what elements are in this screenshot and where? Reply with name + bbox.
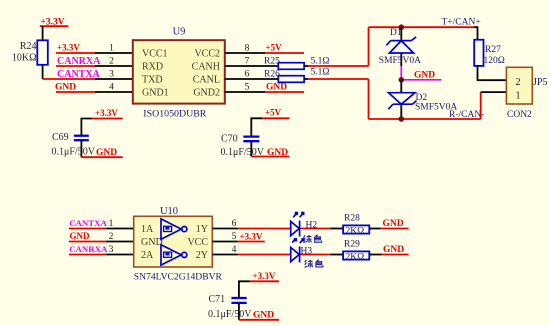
svg-text:JP5: JP5: [533, 77, 547, 88]
wire C70 top: [251, 118, 262, 136]
wire to U10 pin 3: [106, 254, 134, 256]
wire to U9 pin 2: [95, 65, 133, 67]
net label CANRXA (U10 pin 3): [69, 244, 108, 255]
svg-text:+3.3V: +3.3V: [253, 271, 276, 281]
svg-text:8: 8: [245, 44, 250, 54]
wire top rail black corner: [474, 27, 478, 40]
svg-text:2: 2: [109, 232, 114, 242]
capacitor C69: [52, 132, 96, 158]
wire from +3.3V to R24: [42, 26, 44, 40]
power port GND (R28): [381, 219, 409, 229]
wire bottom rail R-/CAN-: [369, 118, 481, 120]
wire H3 to R29: [300, 254, 343, 256]
svg-text:GND: GND: [383, 219, 404, 229]
wire to U9 pin 3: [95, 78, 133, 80]
svg-text:5: 5: [232, 232, 237, 242]
net label CANRXA (U9 pin 2): [56, 56, 101, 67]
resistor R24: [12, 40, 48, 65]
svg-text:R24: R24: [20, 41, 37, 52]
svg-text:TXD: TXD: [142, 75, 163, 86]
svg-text:SMF5V0A: SMF5V0A: [379, 56, 421, 66]
svg-text:ISO1050DUBR: ISO1050DUBR: [143, 109, 207, 120]
svg-text:CANTXA: CANTXA: [69, 218, 107, 228]
net label CANTXA (U9 pin 3): [43, 69, 101, 80]
svg-text:+5V: +5V: [266, 43, 283, 53]
wire to U9 pin 1: [95, 52, 133, 54]
svg-text:R-/CAN-: R-/CAN-: [449, 110, 484, 120]
svg-text:1: 1: [109, 219, 114, 229]
svg-text:C71: C71: [209, 294, 226, 305]
wire CANL drop: [368, 79, 370, 119]
svg-text:2: 2: [516, 77, 521, 88]
svg-text:C70: C70: [221, 134, 238, 145]
wire top rail T+/CAN+: [369, 26, 475, 28]
svg-text:U9: U9: [173, 27, 186, 38]
label green (H2): [303, 235, 321, 243]
wire to JP5 pin 1: [481, 91, 507, 93]
wire R27 bottom to JP5 pin 2: [478, 66, 507, 80]
svg-text:1Y: 1Y: [196, 224, 208, 235]
junction dot (D1 top): [399, 24, 405, 30]
svg-text:5.1Ω: 5.1Ω: [311, 57, 330, 67]
svg-text:GND: GND: [383, 245, 404, 255]
svg-text:6: 6: [245, 70, 250, 80]
svg-text:2KΩ: 2KΩ: [346, 227, 365, 237]
junction dot (D2 bottom): [399, 116, 405, 122]
svg-text:GND: GND: [70, 231, 91, 241]
svg-text:D2: D2: [416, 93, 428, 103]
wire U9 pin 6: [225, 78, 278, 80]
svg-text:VCC1: VCC1: [142, 49, 168, 60]
svg-text:R29: R29: [344, 240, 360, 250]
power port +3.3V (top of R24): [40, 18, 69, 28]
resistor R25: [264, 57, 304, 70]
svg-text:+3.3V: +3.3V: [95, 108, 118, 118]
svg-text:6: 6: [232, 219, 237, 229]
power port +3.3V (C69 top): [91, 108, 123, 119]
power port GND (between D1 D2): [401, 66, 441, 80]
svg-text:+3.3V: +3.3V: [57, 43, 80, 53]
svg-text:10KΩ: 10KΩ: [12, 53, 37, 64]
wire R29 to GND: [369, 254, 381, 256]
svg-text:GND: GND: [253, 311, 274, 321]
power port +5V (C70 top): [262, 108, 290, 119]
svg-text:1: 1: [109, 44, 114, 54]
svg-text:CANL: CANL: [193, 75, 220, 86]
svg-text:3: 3: [109, 70, 114, 80]
svg-text:CANH: CANH: [192, 62, 220, 73]
svg-text:+3.3V: +3.3V: [240, 232, 263, 242]
svg-text:GND2: GND2: [193, 88, 220, 99]
power port GND (C71): [239, 311, 279, 321]
op-amp U9 body: [133, 27, 225, 120]
resistor R29: [343, 240, 369, 263]
wire to U10 pin 2: [106, 241, 134, 243]
svg-text:2: 2: [109, 57, 114, 67]
svg-text:GND: GND: [414, 71, 435, 81]
svg-text:U10: U10: [160, 206, 178, 217]
svg-text:0.1μF/50V: 0.1μF/50V: [52, 147, 96, 158]
svg-text:CANRXA: CANRXA: [69, 244, 108, 254]
net label GND (U9 pin 4): [55, 83, 95, 93]
wire H2 to R28: [300, 228, 343, 230]
svg-text:R28: R28: [344, 214, 360, 224]
svg-text:1: 1: [516, 90, 521, 101]
svg-text:2Y: 2Y: [196, 250, 208, 261]
net label GND (U10 pin 2): [69, 231, 106, 242]
connector JP5: [506, 67, 547, 120]
power port +5V (pin 8): [265, 43, 304, 54]
wire U9 pin 8: [225, 52, 265, 54]
svg-text:R26: R26: [264, 70, 280, 80]
capacitor C70: [221, 134, 265, 159]
svg-text:C69: C69: [52, 132, 69, 143]
svg-text:GND1: GND1: [142, 88, 169, 99]
resistor R27: [474, 40, 505, 66]
inverter gate 2: [161, 245, 187, 265]
svg-text:4: 4: [232, 245, 237, 255]
label green (H3): [305, 260, 323, 268]
wire C69 top: [81, 119, 91, 136]
LED H3: [291, 238, 313, 262]
svg-text:120Ω: 120Ω: [484, 56, 505, 66]
power port GND (C70): [251, 148, 289, 158]
svg-text:T+/CAN+: T+/CAN+: [442, 18, 481, 28]
wire C71 top: [239, 281, 249, 298]
svg-text:R25: R25: [264, 57, 280, 67]
power port GND (C69): [81, 148, 122, 158]
inverter U10 body: [134, 206, 223, 283]
inverter gate 1: [161, 219, 187, 239]
svg-text:7: 7: [245, 57, 250, 67]
power port +3.3V (C71 top): [249, 271, 279, 281]
net label +3.3V (U9 pin 1): [56, 43, 95, 54]
wire C71 bottom: [238, 303, 240, 320]
svg-text:GND: GND: [141, 237, 163, 248]
wire CANH riser: [368, 27, 370, 66]
wire to U10 pin 1: [106, 228, 134, 230]
wire C69 bottom: [80, 140, 82, 157]
diode D1: [379, 27, 421, 66]
svg-text:R27: R27: [485, 45, 501, 55]
power port GND (R29): [382, 245, 409, 255]
wire U10 pin 5: [212, 241, 238, 243]
svg-text:VCC: VCC: [187, 237, 208, 248]
svg-text:1A: 1A: [141, 224, 154, 235]
capacitor C71: [208, 294, 252, 320]
svg-text:RXD: RXD: [142, 62, 163, 73]
net label CANTXA (U10 pin 1): [69, 218, 108, 229]
wire R24 bottom to CANTXA wire: [42, 65, 44, 79]
wire U9 pin 5: [225, 91, 265, 93]
svg-text:SN74LVC2G14DBVR: SN74LVC2G14DBVR: [134, 272, 223, 283]
svg-text:VCC2: VCC2: [194, 49, 220, 60]
svg-text:GND: GND: [55, 83, 76, 93]
svg-text:GND: GND: [96, 148, 117, 158]
svg-text:+5V: +5V: [265, 108, 282, 118]
svg-text:0.1μF/50V: 0.1μF/50V: [208, 309, 252, 320]
wire U10 pin 6: [212, 228, 290, 230]
power port +3.3V (pin 5): [238, 232, 265, 242]
svg-text:GND: GND: [267, 148, 288, 158]
svg-text:D1: D1: [390, 28, 402, 38]
wire U10 pin 4: [212, 254, 290, 256]
wire U9 pin 7: [225, 65, 278, 67]
wire C70 bottom: [250, 141, 252, 156]
resistor R28: [343, 214, 369, 237]
junction dot (GND node): [399, 77, 405, 83]
svg-text:4: 4: [109, 83, 114, 93]
svg-text:CON2: CON2: [507, 110, 532, 120]
diode D2: [388, 80, 457, 119]
svg-text:5.1Ω: 5.1Ω: [311, 68, 330, 78]
wire to U9 pin 4: [95, 91, 133, 93]
svg-text:2A: 2A: [141, 250, 154, 261]
svg-text:3: 3: [109, 245, 114, 255]
svg-text:5: 5: [245, 83, 250, 93]
wire R28 to GND: [369, 228, 380, 230]
resistor R26: [264, 70, 304, 83]
LED H2: [291, 212, 318, 237]
power port GND (pin 5): [265, 83, 304, 93]
wire R25 to CANH riser: [304, 65, 368, 67]
svg-text:2KΩ: 2KΩ: [346, 253, 365, 263]
wire riser to JP5 pin 1: [480, 92, 482, 119]
svg-text:GND: GND: [266, 83, 287, 93]
wire R26 to CANL drop: [304, 78, 368, 80]
